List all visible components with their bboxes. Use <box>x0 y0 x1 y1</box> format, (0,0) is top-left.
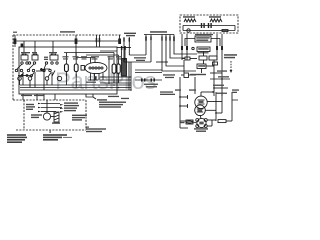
switch S1 <box>15 54 28 72</box>
motor M2 <box>195 105 216 118</box>
connector pair top middle <box>96 35 101 47</box>
battery charger internals <box>183 19 235 32</box>
fuse F1 on left lead <box>14 35 17 47</box>
note block right of power module <box>97 99 126 108</box>
tiny mark above top-left corner <box>13 32 17 33</box>
label: 12vdc <box>160 91 173 92</box>
main harness line <box>144 35 175 53</box>
battery text <box>72 115 87 121</box>
legend block 2 <box>43 134 72 140</box>
capacitor C1 (pill) <box>65 59 69 75</box>
component drop wires to bus <box>23 72 76 90</box>
connector P2 top right of console <box>118 35 121 44</box>
note bracket under console <box>86 94 93 97</box>
bottom text under box B <box>86 128 106 132</box>
label: main harness <box>150 31 167 33</box>
label: to marks above motors <box>175 89 181 90</box>
aux outlet <box>26 104 35 110</box>
legend block 1 <box>7 134 27 143</box>
switch lower row wire <box>18 44 51 88</box>
motor M1 <box>195 91 222 108</box>
harness nested corners to right section <box>135 46 197 73</box>
console bus wires left <box>20 85 100 90</box>
label: below charger box <box>195 34 213 35</box>
console box inner ledge <box>100 50 117 52</box>
label: motor M3 <box>194 128 208 132</box>
label: rectifier <box>198 48 209 50</box>
field coil (hatched) <box>180 120 197 128</box>
connector pairs left of rectifier <box>181 34 194 60</box>
capacitor C2 (pill) <box>66 59 79 76</box>
suction motor arrow <box>230 61 233 73</box>
jumper wire across console top <box>17 40 120 42</box>
resistor R1 <box>218 120 232 123</box>
connector pairs right of rectifier <box>216 34 223 60</box>
tiny text labels <box>7 16 239 143</box>
label: receptacle box text <box>196 37 210 38</box>
connector blobs above relay <box>121 46 123 50</box>
label: battery <box>183 16 195 18</box>
label: rail notes <box>217 70 227 71</box>
corner number 28 <box>86 127 89 128</box>
relay K1 <box>122 59 127 77</box>
label: power <box>190 74 206 75</box>
label: charger <box>209 16 221 18</box>
power switch component <box>181 73 196 78</box>
connector P1 top center <box>75 35 78 47</box>
dashed enclosure: console assembly (outer) <box>13 35 121 100</box>
console bus wires right <box>100 77 132 91</box>
fuse F2 <box>182 57 197 60</box>
console labels <box>21 52 30 53</box>
circuit breaker box <box>199 56 207 60</box>
motor M3 with brushes <box>196 118 216 127</box>
vertical links in right column <box>183 60 185 73</box>
dashed enclosure: power module (lower) <box>16 100 86 130</box>
micro labels under console bottom <box>21 95 129 99</box>
motor speed selector (oval drum) <box>76 47 107 81</box>
rectifier box <box>197 47 210 52</box>
interconnect relay to rail <box>213 62 218 65</box>
blower switch leads <box>123 37 151 62</box>
console box <box>19 47 117 94</box>
tick on bottom dashed edge <box>50 131 51 133</box>
switch feed stubs from jumper <box>24 41 53 55</box>
12VDC feed wire <box>179 77 188 128</box>
switch S4 lower <box>52 71 62 81</box>
right rail wires <box>210 60 230 96</box>
receptacle bracket arrows <box>60 104 64 113</box>
wires console to power module <box>23 94 55 100</box>
connector arrow left of S4 <box>40 68 45 71</box>
inline connector pairs mid-right <box>135 78 162 81</box>
label dashes under rectifier <box>198 52 209 53</box>
riser wires right of console <box>108 56 110 84</box>
upper console bus wires <box>64 53 118 60</box>
relay box K2 <box>197 64 206 69</box>
capacitor C5 (capsule) <box>117 58 121 83</box>
clock label <box>31 114 42 118</box>
resistor R2 (small block) <box>81 66 84 71</box>
micro labels mid-right <box>134 57 175 87</box>
label: suction motor <box>224 54 237 58</box>
label: to blower switch <box>124 33 136 34</box>
switch S3 <box>43 54 58 72</box>
aux outlet arrows <box>38 103 62 113</box>
thermal protector box <box>209 56 217 60</box>
label: relay <box>198 65 205 67</box>
clock motor (circle) in power module <box>43 100 54 120</box>
capacitor C4 (capsule) <box>112 58 116 83</box>
battery fuse (hatched) in power module <box>54 112 59 122</box>
right rails <box>195 77 238 121</box>
charge receptacle text <box>64 102 79 111</box>
label: MF <box>181 122 185 123</box>
label: red jumper <box>60 31 75 32</box>
dashed enclosure: battery charger (top right) <box>180 15 238 33</box>
charge receptacle box <box>185 36 220 46</box>
switch S2 <box>27 54 38 72</box>
fuse label <box>52 122 60 123</box>
